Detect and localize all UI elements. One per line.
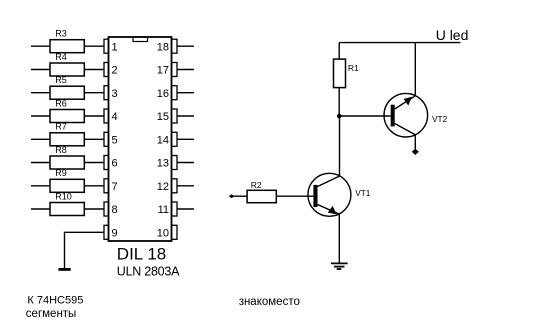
wire rail to VT2 emitter bbox=[414, 43, 416, 96]
wire R9 to pin 7 bbox=[84, 185, 104, 187]
wire R1 to junction bbox=[338, 88, 340, 116]
svg-text:7: 7 bbox=[112, 181, 118, 193]
svg-text:9: 9 bbox=[112, 228, 118, 240]
resistor R1 bbox=[334, 59, 360, 88]
resistor R10 bbox=[50, 191, 84, 215]
wire R10 left lead bbox=[31, 208, 50, 210]
wire R10 to pin 8 bbox=[84, 208, 104, 210]
wire R5 to pin 3 bbox=[84, 92, 104, 94]
wire R6 left lead bbox=[31, 115, 50, 117]
svg-text:R2: R2 bbox=[251, 180, 262, 190]
svg-text:ULN 2803A: ULN 2803A bbox=[117, 265, 180, 279]
transistor VT1 bbox=[308, 173, 371, 216]
node junction R1/VT1/VT2 bbox=[337, 114, 342, 119]
svg-text:11: 11 bbox=[158, 204, 169, 216]
wire input to R2 bbox=[231, 195, 247, 197]
resistor R2 bbox=[247, 180, 276, 203]
wire VT2 collector down bbox=[414, 135, 416, 151]
svg-text:R9: R9 bbox=[55, 168, 67, 178]
pin 16 bbox=[157, 86, 194, 100]
wire R4 to pin 2 bbox=[84, 69, 104, 71]
wire R8 left lead bbox=[31, 162, 50, 164]
IC U1 DIL 18 body bbox=[109, 37, 172, 241]
wire rail to R1 bbox=[338, 43, 340, 60]
pin 10 bbox=[157, 225, 177, 239]
svg-text:13: 13 bbox=[157, 158, 169, 170]
transistor VT2 bbox=[384, 93, 448, 137]
svg-text:14: 14 bbox=[157, 135, 169, 147]
svg-text:DIL 18: DIL 18 bbox=[117, 244, 166, 263]
pin 6 bbox=[104, 156, 118, 170]
pin 13 bbox=[157, 156, 194, 170]
svg-text:R7: R7 bbox=[55, 122, 67, 132]
svg-text:сегменты: сегменты bbox=[26, 308, 77, 320]
svg-text:18: 18 bbox=[157, 41, 169, 53]
svg-text:VT2: VT2 bbox=[432, 114, 448, 124]
pin 1 bbox=[104, 39, 118, 53]
svg-text:VT1: VT1 bbox=[355, 188, 371, 198]
wire R5 left lead bbox=[31, 92, 50, 94]
pin 8 bbox=[104, 202, 118, 216]
svg-text:12: 12 bbox=[157, 181, 169, 193]
svg-text:4: 4 bbox=[112, 111, 118, 123]
wire R2 to VT1 base bbox=[276, 195, 313, 197]
wire R4 left lead bbox=[31, 69, 50, 71]
pin 17 bbox=[157, 63, 194, 77]
pin 4 bbox=[104, 109, 118, 123]
resistor R5 bbox=[50, 75, 84, 99]
pin 9 bbox=[104, 225, 118, 239]
svg-text:R6: R6 bbox=[55, 98, 67, 108]
svg-text:R5: R5 bbox=[55, 75, 67, 85]
svg-text:1: 1 bbox=[112, 41, 118, 53]
resistor R7 bbox=[50, 122, 84, 146]
pin 11 bbox=[158, 202, 194, 216]
wire VT1 emitter to ground bbox=[338, 214, 340, 263]
pin 2 bbox=[104, 63, 118, 77]
svg-text:16: 16 bbox=[157, 88, 169, 100]
svg-text:R3: R3 bbox=[55, 29, 67, 39]
svg-text:R8: R8 bbox=[55, 145, 67, 155]
wire R7 to pin 5 bbox=[84, 138, 104, 140]
resistor R4 bbox=[50, 52, 84, 76]
svg-text:2: 2 bbox=[112, 65, 118, 77]
ground bbox=[331, 263, 348, 269]
svg-text:R4: R4 bbox=[55, 52, 67, 62]
svg-text:R1: R1 bbox=[348, 63, 359, 73]
wire junction to VT2 base bbox=[339, 115, 391, 117]
pin 15 bbox=[157, 109, 194, 123]
wire U led rail bbox=[339, 42, 460, 44]
pin 5 bbox=[104, 132, 118, 146]
wire pin 9 to ground bbox=[65, 232, 105, 268]
wire R6 to pin 4 bbox=[84, 115, 104, 117]
wire R9 left lead bbox=[31, 185, 50, 187]
pin 14 bbox=[157, 132, 194, 146]
wire R8 to pin 6 bbox=[84, 162, 104, 164]
ground (pin 9 termination bar) bbox=[58, 268, 70, 271]
resistor R9 bbox=[50, 168, 84, 192]
resistor R6 bbox=[50, 98, 84, 122]
terminal arrow R2 input bbox=[229, 194, 235, 198]
svg-text:К 74HC595: К 74HC595 bbox=[27, 295, 83, 307]
wire R3 to pin 1 bbox=[84, 45, 104, 47]
pin 7 bbox=[104, 179, 118, 193]
svg-text:17: 17 bbox=[157, 65, 169, 77]
resistor R3 bbox=[50, 29, 84, 53]
svg-text:R10: R10 bbox=[55, 191, 72, 201]
wire junction to VT1 collector bbox=[339, 116, 341, 176]
wire R7 left lead bbox=[31, 138, 50, 140]
pin 12 bbox=[157, 179, 194, 193]
pin 18 bbox=[157, 39, 194, 53]
svg-text:U led: U led bbox=[436, 27, 469, 43]
svg-text:знакоместо: знакоместо bbox=[239, 296, 300, 308]
pin 3 bbox=[104, 86, 118, 100]
terminal arrow VT2 output bbox=[412, 149, 419, 155]
svg-text:5: 5 bbox=[112, 135, 118, 147]
svg-text:3: 3 bbox=[112, 88, 118, 100]
wire R3 left lead bbox=[31, 45, 50, 47]
svg-text:8: 8 bbox=[112, 204, 118, 216]
svg-text:15: 15 bbox=[157, 111, 169, 123]
resistor R8 bbox=[50, 145, 84, 169]
svg-text:6: 6 bbox=[112, 158, 118, 170]
svg-text:10: 10 bbox=[157, 228, 169, 240]
